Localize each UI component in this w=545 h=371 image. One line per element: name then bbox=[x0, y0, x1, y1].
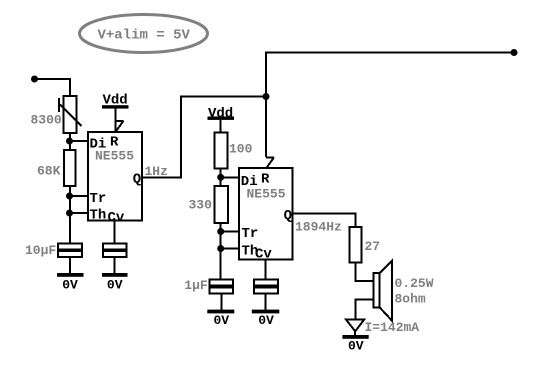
svg-text:Di: Di bbox=[241, 174, 258, 190]
svg-text:Tr: Tr bbox=[90, 191, 107, 207]
svg-text:0V: 0V bbox=[258, 313, 274, 328]
svg-text:Tr: Tr bbox=[242, 226, 259, 242]
svg-text:1Hz: 1Hz bbox=[145, 164, 168, 179]
svg-text:Vdd: Vdd bbox=[103, 93, 128, 109]
svg-text:27: 27 bbox=[365, 239, 381, 254]
svg-text:Q: Q bbox=[284, 208, 292, 224]
svg-text:100: 100 bbox=[229, 142, 253, 157]
svg-text:0V: 0V bbox=[348, 339, 364, 354]
svg-text:1µF: 1µF bbox=[184, 278, 208, 293]
svg-text:Th: Th bbox=[90, 207, 107, 223]
svg-text:Cv: Cv bbox=[108, 210, 125, 226]
svg-text:330: 330 bbox=[189, 198, 213, 213]
svg-text:8ohm: 8ohm bbox=[395, 291, 426, 306]
svg-text:0V: 0V bbox=[213, 313, 229, 328]
svg-text:R: R bbox=[261, 172, 270, 188]
svg-text:Q: Q bbox=[133, 172, 141, 188]
svg-text:Di: Di bbox=[90, 137, 107, 153]
svg-text:10µF: 10µF bbox=[25, 243, 56, 258]
svg-text:Vdd: Vdd bbox=[208, 106, 233, 122]
svg-text:0V: 0V bbox=[62, 277, 78, 292]
svg-text:Cv: Cv bbox=[255, 247, 272, 263]
svg-text:0V: 0V bbox=[107, 277, 123, 292]
svg-text:V+alim = 5V: V+alim = 5V bbox=[98, 28, 191, 44]
svg-text:0.25W: 0.25W bbox=[395, 276, 434, 291]
svg-text:8300: 8300 bbox=[31, 113, 62, 128]
svg-text:R: R bbox=[110, 135, 119, 151]
svg-text:I=142mA: I=142mA bbox=[365, 320, 420, 335]
svg-text:1894Hz: 1894Hz bbox=[295, 220, 342, 235]
svg-text:68K: 68K bbox=[37, 164, 61, 179]
